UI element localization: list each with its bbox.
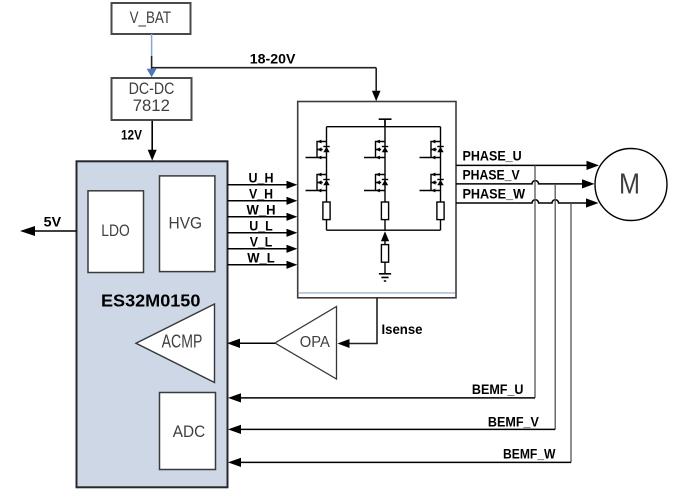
resistor leg W bbox=[437, 202, 444, 220]
svg-text:M: M bbox=[619, 168, 640, 200]
svg-text:ACMP: ACMP bbox=[162, 332, 203, 352]
arrowhead into OPA bbox=[338, 339, 350, 348]
vcc bar symbol bbox=[379, 119, 392, 127]
leg U vertical bbox=[326, 127, 328, 231]
svg-text:18-20V: 18-20V bbox=[250, 50, 296, 66]
wire 5V out of MCU bbox=[32, 230, 77, 232]
block LDO bbox=[88, 191, 144, 273]
mosfet Q6 low W bbox=[420, 173, 444, 193]
svg-text:ES32M0150: ES32M0150 bbox=[101, 291, 200, 311]
block DC-DC 7812 bbox=[112, 78, 192, 120]
wire PHASE_W with hops bbox=[456, 200, 587, 203]
wire V_L bbox=[228, 248, 289, 250]
mosfet Q1 high U bbox=[306, 140, 330, 160]
circle motor M bbox=[595, 149, 667, 221]
svg-text:U_L: U_L bbox=[249, 218, 273, 233]
wire U_L bbox=[228, 232, 289, 234]
wire PHASE_U bbox=[456, 164, 588, 166]
arrowhead into DC-DC (blue) bbox=[147, 69, 157, 78]
wire drop W bbox=[570, 203, 572, 462]
svg-text:DC-DC: DC-DC bbox=[129, 80, 175, 98]
svg-text:7812: 7812 bbox=[133, 97, 170, 115]
svg-text:BEMF_V: BEMF_V bbox=[488, 413, 540, 429]
block ADC bbox=[160, 393, 216, 470]
wire BEMF_U bbox=[240, 397, 535, 399]
wire down into bridge bbox=[375, 68, 377, 92]
bottom rail bbox=[327, 229, 441, 231]
svg-text:V_L: V_L bbox=[250, 234, 273, 249]
wire W_H bbox=[228, 216, 289, 218]
triangle OPA bbox=[275, 307, 337, 380]
accent line inside bridge bottom bbox=[299, 292, 455, 294]
svg-text:BEMF_U: BEMF_U bbox=[472, 381, 524, 397]
svg-text:W_H: W_H bbox=[247, 202, 276, 217]
svg-text:HVG: HVG bbox=[169, 214, 203, 232]
wire V_BAT to junction (blue) bbox=[151, 34, 153, 56]
arrowhead 12V into MCU bbox=[148, 150, 157, 161]
wire BEMF_W bbox=[240, 461, 571, 463]
svg-text:Isense: Isense bbox=[382, 321, 423, 337]
svg-text:ADC: ADC bbox=[173, 423, 206, 441]
svg-text:5V: 5V bbox=[44, 213, 62, 229]
mosfet Q3 high V bbox=[364, 140, 388, 160]
resistor leg V bbox=[381, 202, 388, 220]
wire DC-DC to MCU bbox=[151, 121, 153, 151]
svg-text:W_L: W_L bbox=[247, 250, 275, 265]
triangle ACMP bbox=[136, 304, 215, 383]
top rail bbox=[327, 126, 441, 128]
wires U_H..W_L into bridge with labels bbox=[228, 170, 298, 269]
wire U_H bbox=[228, 184, 289, 186]
arrowhead into bridge top bbox=[372, 91, 381, 102]
svg-text:OPA: OPA bbox=[300, 334, 331, 351]
svg-text:LDO: LDO bbox=[101, 222, 130, 240]
resistor sense bbox=[381, 245, 388, 263]
arrowhead into ACMP bbox=[227, 339, 240, 348]
mosfet Q4 low V bbox=[364, 173, 388, 193]
arrowhead 5V bbox=[20, 226, 35, 236]
block HVG bbox=[160, 176, 215, 272]
block MOSFET bridge box bbox=[298, 102, 456, 298]
wire BEMF_V bbox=[240, 428, 555, 430]
wire Isense from bridge to OPA bbox=[348, 298, 377, 344]
svg-text:V_H: V_H bbox=[249, 186, 273, 201]
wire V_H bbox=[228, 200, 289, 202]
wire junction to DC-DC bbox=[151, 56, 153, 69]
svg-text:PHASE_U: PHASE_U bbox=[463, 148, 522, 164]
arrowhead up to bottom rail bbox=[381, 231, 389, 241]
leg W vertical bbox=[440, 127, 442, 231]
resistor leg U bbox=[323, 202, 330, 220]
mosfet Q2 low U bbox=[306, 173, 330, 193]
svg-text:PHASE_V: PHASE_V bbox=[463, 166, 521, 182]
ground bbox=[379, 274, 391, 281]
wire W_L bbox=[228, 264, 289, 266]
block V_BAT bbox=[112, 3, 191, 34]
sense wire bbox=[384, 239, 386, 274]
svg-text:12V: 12V bbox=[121, 127, 143, 143]
wire 18-20V horizontal bbox=[152, 67, 377, 69]
leg V vertical bbox=[384, 127, 386, 231]
block MCU ES32M0150 bbox=[77, 161, 228, 487]
wire OPA to ACMP bbox=[239, 342, 275, 344]
mosfet Q5 high W bbox=[420, 140, 444, 160]
svg-text:V_BAT: V_BAT bbox=[130, 9, 171, 27]
svg-text:U_H: U_H bbox=[249, 170, 274, 185]
wire PHASE_V with hop bbox=[456, 181, 583, 184]
wire drop U bbox=[534, 165, 536, 398]
wire drop V bbox=[554, 184, 556, 430]
svg-text:BEMF_W: BEMF_W bbox=[503, 446, 556, 462]
svg-text:PHASE_W: PHASE_W bbox=[463, 185, 526, 201]
